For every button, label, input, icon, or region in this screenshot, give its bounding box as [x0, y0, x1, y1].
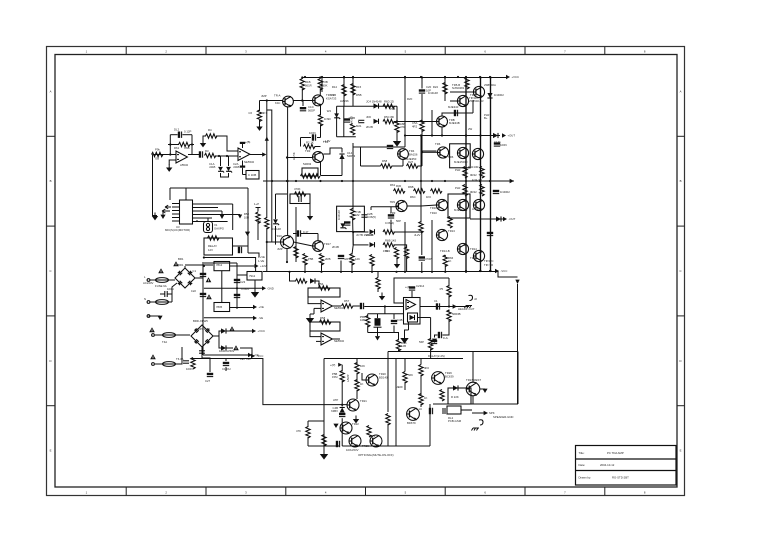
- svg-text:100U/63V: 100U/63V: [346, 448, 359, 452]
- resistor R73: [322, 435, 326, 446]
- junction fb right: [191, 143, 193, 145]
- svg-text:P4B: P4B: [331, 93, 336, 97]
- svg-text:2W: 2W: [468, 127, 473, 131]
- svg-text:BA156: BA156: [409, 153, 418, 157]
- wire gnd stem: [377, 333, 379, 337]
- diode D8: [370, 229, 375, 234]
- wire fb drop: [300, 138, 302, 147]
- svg-text:R56: R56: [318, 282, 324, 286]
- wire C31 out: [364, 306, 403, 308]
- svg-text:J2: J2: [474, 297, 477, 301]
- zone tick top: [125, 47, 127, 55]
- diode D13: [221, 345, 226, 350]
- wire BR2 out a: [213, 331, 221, 336]
- wire bias box left: [336, 106, 338, 137]
- wire servo in: [315, 281, 319, 288]
- wire C28 tail: [225, 367, 227, 371]
- wire U3 right pin 2: [193, 207, 219, 209]
- ground R34: [394, 261, 400, 269]
- zone tick top: [285, 47, 287, 55]
- wire BR2 out b: [219, 336, 221, 348]
- power stub bar U1B bottom: [240, 166, 245, 168]
- capacitor C13: [494, 142, 500, 146]
- junction top rail: [304, 76, 306, 78]
- resistor R55: [296, 279, 307, 283]
- capacitor C24 4700U: [234, 294, 240, 298]
- wire Q4 base: [450, 100, 458, 102]
- resistor R57: [342, 304, 353, 308]
- junction filter tap: [384, 305, 386, 307]
- junction V7 out line: [404, 134, 406, 136]
- wire to REG1: [185, 264, 213, 266]
- wire U1B out: [250, 154, 263, 156]
- junction lower bus: [431, 271, 433, 273]
- junction out line: [441, 134, 443, 136]
- wire R28 right: [392, 165, 404, 167]
- svg-text:1K: 1K: [424, 396, 428, 400]
- transistor Q6a MJE340: [437, 116, 448, 127]
- wire filter tap: [384, 307, 386, 314]
- wire +in2: [316, 340, 321, 342]
- diode D15 on output: [493, 133, 498, 138]
- wire C2P down: [390, 220, 392, 232]
- diode D6: [374, 119, 379, 124]
- capacitor C30: [338, 255, 344, 259]
- svg-text:56K: 56K: [408, 373, 413, 377]
- feedback loop U4B: [310, 322, 340, 331]
- wire vertical V10: [444, 77, 446, 96]
- svg-text:TR21: TR21: [360, 399, 367, 403]
- svg-text:TR23: TR23: [362, 444, 369, 448]
- junction feedback: [169, 153, 171, 155]
- resistor R23: [404, 247, 408, 259]
- resistor R34: [394, 248, 398, 260]
- svg-text:47R: 47R: [383, 249, 388, 253]
- capacitor C2 feedback: [178, 132, 182, 138]
- svg-text:+VCC: +VCC: [258, 329, 266, 333]
- svg-text:W4: W4: [327, 109, 332, 113]
- wire Q6a emitter: [441, 127, 443, 136]
- warning W2: [158, 268, 164, 273]
- junction top rail: [479, 76, 481, 78]
- svg-text:SPEAKER-GND: SPEAKER-GND: [493, 415, 513, 419]
- svg-text:D: D: [49, 359, 51, 363]
- wire lower bus / -VCC rail: [263, 271, 495, 273]
- arrow earth: [157, 316, 162, 320]
- wire pin1 drop: [232, 204, 234, 230]
- zone tick right: [677, 315, 685, 317]
- wire mute column: [430, 318, 432, 340]
- junction headphone line: [448, 305, 450, 307]
- node -VE: [253, 316, 263, 320]
- svg-text:1N90: 1N90: [324, 117, 331, 121]
- svg-text:2K2B: 2K2B: [366, 125, 373, 129]
- wire REG1 out: [230, 265, 256, 267]
- junction lower bus: [351, 271, 353, 273]
- svg-text:GB: GB: [155, 157, 159, 161]
- wire to decoup box: [243, 174, 247, 176]
- arrow ground C37: [432, 339, 437, 343]
- svg-text:A-REGR: A-REGR: [472, 207, 483, 211]
- svg-text:+OUT: +OUT: [508, 134, 516, 138]
- wire X1 top: [207, 218, 209, 222]
- wire to speaker feed: [495, 271, 518, 277]
- svg-text:N: N: [144, 297, 146, 301]
- driver pair box upper: [450, 144, 471, 168]
- resistor R15: [351, 84, 355, 96]
- resistor R43: [294, 247, 298, 259]
- resistor R17: [383, 104, 394, 108]
- svg-text:100N: 100N: [167, 287, 174, 291]
- wire C18: [293, 233, 297, 235]
- wire U4B out: [332, 338, 340, 340]
- svg-text:TR-A: TR-A: [274, 94, 281, 98]
- svg-text:470P: 470P: [425, 257, 432, 261]
- resistor R60: [376, 278, 380, 289]
- transistor Q14: [457, 243, 468, 254]
- svg-text:R4: R4: [208, 128, 212, 132]
- zone tick bottom: [604, 487, 606, 496]
- wire r77 b: [420, 375, 422, 395]
- wire to gnd: [405, 330, 409, 336]
- svg-text:K4C: K4C: [275, 101, 280, 105]
- wire U3 right pin 4: [193, 214, 241, 216]
- resistor R19: [395, 121, 399, 133]
- svg-text:R58: R58: [320, 316, 326, 320]
- svg-text:TR27 REST: TR27 REST: [466, 378, 481, 382]
- resistor R62 12B: [396, 340, 400, 351]
- wire F2 out: [169, 301, 173, 303]
- transistor Q15: [473, 250, 484, 261]
- wire vertical V7b: [404, 222, 406, 272]
- resistor R13a: [301, 174, 312, 178]
- wire filter top: [368, 313, 403, 315]
- ground q21: [353, 416, 359, 424]
- junction top rail: [444, 76, 446, 78]
- arrow down IC: [160, 215, 165, 219]
- resistor R41: [256, 212, 260, 224]
- wire U3 right pin 6: [193, 221, 228, 223]
- wire BR2 bot: [201, 347, 203, 358]
- resistor R42: [265, 218, 269, 230]
- junction top rail: [420, 76, 422, 78]
- junction V8 base: [421, 151, 423, 153]
- wire R63 top: [448, 278, 450, 287]
- wire Rf top: [367, 314, 369, 317]
- transistor Q7: [457, 147, 468, 158]
- svg-text:R 22K: R 22K: [451, 395, 459, 399]
- arrow pin3: [220, 215, 224, 219]
- wire feedback right: [191, 135, 193, 155]
- warning W6: [233, 345, 239, 350]
- svg-text:1N4002: 1N4002: [494, 93, 504, 97]
- junction bus: [286, 261, 288, 263]
- svg-text:1N4148: 1N4148: [337, 210, 341, 220]
- zone tick top: [205, 47, 207, 55]
- diode D16 on output 2: [496, 216, 501, 221]
- wire PSU to +VE tag: [203, 354, 248, 356]
- capacitor C9: [344, 118, 350, 122]
- svg-text:2SB546A: 2SB546A: [484, 83, 496, 87]
- wire BR1 out: [195, 277, 203, 279]
- diode D17: [410, 315, 415, 320]
- wire psu t: [204, 262, 237, 264]
- svg-text:0.12P: 0.12P: [184, 130, 191, 134]
- wire gnd link: [310, 313, 314, 315]
- ground U5: [400, 334, 408, 344]
- svg-text:FLR-TR: FLR-TR: [472, 178, 482, 182]
- resistor R77: [419, 365, 423, 376]
- wire R52 stub: [351, 264, 353, 272]
- resistor R2 feedback: [179, 142, 191, 146]
- junction top rail: [465, 76, 467, 78]
- junction lower bus: [371, 271, 373, 273]
- wire v388 b: [387, 424, 389, 446]
- wire bias inner column: [343, 106, 345, 137]
- resistor R40 on relay: [208, 236, 220, 240]
- wire R43 b: [295, 257, 297, 262]
- svg-text:BR1: BR1: [178, 257, 184, 261]
- junction psu mid: [236, 287, 238, 289]
- capacitor C35: [409, 286, 415, 290]
- AC terminal 3: [152, 363, 155, 366]
- resistor R20: [350, 209, 354, 221]
- ground R19: [393, 137, 401, 147]
- svg-text:TR10: TR10: [430, 211, 437, 215]
- junction mid rail: [465, 180, 467, 182]
- bias box lower: [337, 206, 365, 231]
- transistor Q6: [437, 147, 448, 158]
- junction -VCC rail: [465, 270, 467, 272]
- capacitor C13a 100N: [312, 134, 316, 140]
- junction mid rail: [479, 180, 481, 182]
- wire U1B V+: [242, 143, 244, 148]
- wire fb to -in: [308, 297, 321, 304]
- wire zener drop 2: [228, 156, 230, 167]
- wire R63 bottom: [448, 296, 450, 307]
- svg-text:1K6: 1K6: [426, 195, 431, 199]
- junction top rail: [421, 76, 423, 78]
- resistor R65: [428, 339, 432, 350]
- capacitor C33: [391, 320, 397, 324]
- wire filter bottom: [368, 332, 394, 334]
- wire F4 in: [155, 363, 163, 365]
- loop D21: [448, 388, 471, 404]
- wire C37 out: [435, 335, 438, 338]
- svg-text:M21: M21: [356, 124, 362, 128]
- wire U5 pin b1: [408, 322, 410, 330]
- zone tick bottom: [205, 487, 207, 496]
- arrow headphone: [453, 304, 457, 308]
- svg-text:+VE: +VE: [254, 353, 259, 357]
- svg-text:GAXPG: GAXPG: [214, 227, 224, 231]
- svg-text:C1: C1: [434, 299, 438, 303]
- resistor R63: [447, 286, 451, 297]
- svg-text:-VCC: -VCC: [501, 269, 508, 273]
- wire psu top link: [204, 258, 256, 272]
- junction mid rail: [444, 180, 446, 182]
- fuse F2: [156, 300, 169, 305]
- svg-text:P4B: P4B: [390, 107, 395, 111]
- wire bias drop: [360, 147, 362, 166]
- svg-text:JC4 1N4148: JC4 1N4148: [366, 100, 382, 104]
- wire vertical feed V1b: [266, 228, 268, 272]
- relay RL1: [204, 238, 233, 255]
- capacitor C11: [361, 215, 367, 217]
- wire r72 up: [307, 421, 309, 427]
- resistor R22: [383, 243, 394, 247]
- svg-text:TR6: TR6: [448, 155, 454, 159]
- svg-text:C 1DB: C 1DB: [248, 173, 256, 177]
- transistor Q10: [436, 199, 447, 210]
- svg-text:7912: 7912: [249, 274, 256, 278]
- wire Q1-Q2: [293, 100, 312, 102]
- arrow ground filter: [375, 336, 380, 340]
- wire feedback top b: [182, 134, 192, 136]
- svg-text:2F3B: 2F3B: [348, 116, 355, 120]
- opto coupler X1: [204, 222, 213, 233]
- svg-text:4K6: 4K6: [424, 366, 429, 370]
- junction top rail: [457, 76, 459, 78]
- wire R24 b: [444, 93, 446, 101]
- capacitor C16: [419, 256, 425, 260]
- junction mid rail: [420, 180, 422, 182]
- svg-text:TR3: TR3: [305, 149, 311, 153]
- svg-text:12K: 12K: [355, 257, 360, 261]
- wire R64 top: [448, 310, 450, 312]
- svg-text:GND: GND: [268, 287, 274, 291]
- wire vertical V5: [343, 78, 345, 107]
- svg-text:1N4148: 1N4148: [271, 227, 281, 231]
- wire F1 out: [169, 279, 176, 281]
- junction mid rail: [295, 180, 297, 182]
- arrow flow relay column: [245, 232, 250, 236]
- svg-text:1N4148: 1N4148: [428, 91, 438, 95]
- junction lower bus: [395, 271, 397, 273]
- wire mains N: [150, 301, 155, 303]
- zone tick bottom: [365, 487, 367, 496]
- node +VE prot: [248, 353, 259, 357]
- warning W5: [229, 326, 235, 331]
- wire U3 left pin 3: [172, 210, 180, 212]
- svg-text:R6D 2D: R6D 2D: [384, 100, 394, 104]
- wire r77 top: [420, 359, 422, 365]
- wire C28 stub: [225, 359, 227, 362]
- svg-text:-OUT: -OUT: [509, 217, 516, 221]
- wire C30 stub: [340, 261, 342, 272]
- wire R11 bottom: [319, 89, 321, 95]
- wire R60 b: [377, 288, 379, 292]
- junction top rail: [352, 76, 354, 78]
- capacitor C28 100U: [223, 362, 229, 366]
- wire R66 top: [444, 255, 446, 257]
- capacitor C2F: [358, 120, 364, 122]
- svg-text:C100U: C100U: [222, 367, 231, 371]
- wire R50 stub: [304, 264, 306, 272]
- svg-text:561R: 561R: [305, 83, 312, 87]
- capacitor C6a: [454, 110, 458, 116]
- wire vertical feed V1a: [266, 101, 268, 219]
- capacitor C18: [297, 230, 301, 236]
- svg-text:C27: C27: [205, 379, 211, 383]
- wire V6b lower: [352, 218, 355, 245]
- fuse F1: [156, 278, 169, 283]
- wire psu low: [204, 317, 253, 319]
- transistor Q20 BD140: [366, 374, 378, 386]
- junction mid rail: [341, 180, 343, 182]
- wire U3 right pin 5: [193, 217, 213, 219]
- wire arrow stem: [162, 212, 164, 215]
- svg-text:Date:: Date:: [579, 463, 586, 467]
- junction row JL: [421, 231, 423, 233]
- wire prot top2: [324, 358, 463, 360]
- arrow on mid rail: [510, 179, 514, 183]
- warning W3: [206, 294, 212, 299]
- svg-text:12B: 12B: [401, 344, 406, 348]
- wire Cf2 bottom: [393, 326, 395, 333]
- wire Q10 base: [421, 205, 437, 206]
- svg-text:C1: C1: [192, 269, 196, 273]
- svg-text:JD6: JD6: [366, 115, 371, 119]
- resistor R14: [342, 85, 346, 97]
- svg-text:TR17: TR17: [324, 242, 331, 246]
- node +VE: [253, 305, 264, 309]
- chassis ground J2: [465, 306, 473, 309]
- junction top rail: [343, 76, 345, 78]
- wire N to bridge: [172, 283, 177, 302]
- wire prot top: [388, 351, 518, 353]
- resistor R28: [381, 164, 392, 168]
- jack hook J2: [469, 295, 473, 300]
- wire D11 column b: [275, 226, 277, 245]
- op-amp U4A: [321, 300, 332, 312]
- wire Q3 base: [287, 157, 313, 159]
- transistor Q1 2N5551: [283, 96, 294, 107]
- wire input: [153, 154, 177, 156]
- svg-text:R5C 8D: R5C 8D: [384, 115, 394, 119]
- resistor R58: [320, 320, 331, 324]
- transistor Q12: [473, 199, 484, 210]
- svg-text:C23: C23: [240, 280, 246, 284]
- wire relay out: [233, 245, 245, 247]
- capacitor C36: [436, 303, 440, 309]
- svg-text:B: B: [680, 179, 682, 183]
- wire bias top row: [337, 105, 397, 107]
- transistor Q11: [457, 199, 468, 210]
- diode D12: [221, 328, 226, 333]
- wire vertical V8a3: [421, 130, 423, 166]
- capacitor C34: [431, 340, 437, 344]
- svg-text:56R3B: 56R3B: [452, 312, 461, 316]
- wire C column: [236, 263, 238, 309]
- capacitor C2P: [388, 214, 394, 218]
- wire V8 to Q6 base: [422, 151, 437, 153]
- svg-text:MJE34B: MJE34B: [449, 121, 460, 125]
- wire Q27 emitter down: [472, 396, 474, 404]
- zone tick bottom: [444, 487, 446, 496]
- svg-text:7812: 7812: [216, 263, 223, 267]
- resistor R11: [318, 79, 322, 91]
- svg-text:TR14-B: TR14-B: [440, 249, 450, 253]
- wire mains L: [150, 279, 155, 281]
- junction top rail: [465, 76, 467, 78]
- wire sub to mute column: [418, 317, 431, 319]
- sub block U5: [408, 313, 418, 322]
- wire R62 bottom: [398, 350, 400, 352]
- wire d-row2 to TR6: [394, 121, 437, 123]
- transistor Q21 BC547: [347, 399, 359, 411]
- svg-text:TIP-TR: TIP-TR: [484, 263, 493, 267]
